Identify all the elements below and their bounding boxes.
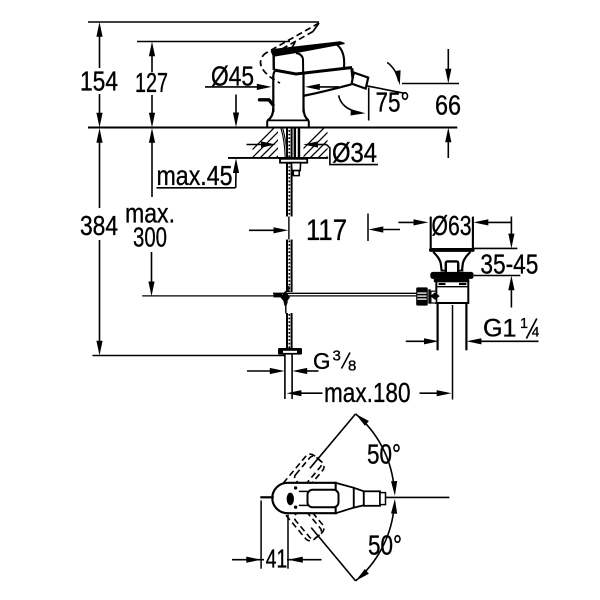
svg-text:35-45: 35-45 [480, 248, 538, 279]
svg-text:8: 8 [348, 358, 356, 375]
svg-text:117: 117 [306, 214, 347, 247]
svg-text:127: 127 [135, 67, 168, 98]
svg-text:41: 41 [266, 543, 288, 573]
svg-text:50°: 50° [367, 439, 401, 470]
svg-text:154: 154 [80, 66, 118, 97]
svg-text:1: 1 [520, 316, 528, 332]
svg-text:384: 384 [80, 210, 118, 241]
svg-text:G: G [313, 348, 331, 374]
svg-text:G1: G1 [483, 315, 517, 343]
svg-text:Ø34: Ø34 [332, 137, 377, 168]
svg-text:66: 66 [435, 90, 461, 121]
svg-text:300: 300 [133, 222, 167, 253]
svg-text:50°: 50° [368, 530, 402, 561]
svg-text:max.45: max.45 [157, 160, 233, 191]
svg-text:max.180: max.180 [324, 377, 411, 408]
svg-text:4: 4 [532, 324, 540, 339]
svg-text:Ø63: Ø63 [432, 210, 472, 241]
svg-text:3: 3 [333, 348, 341, 365]
